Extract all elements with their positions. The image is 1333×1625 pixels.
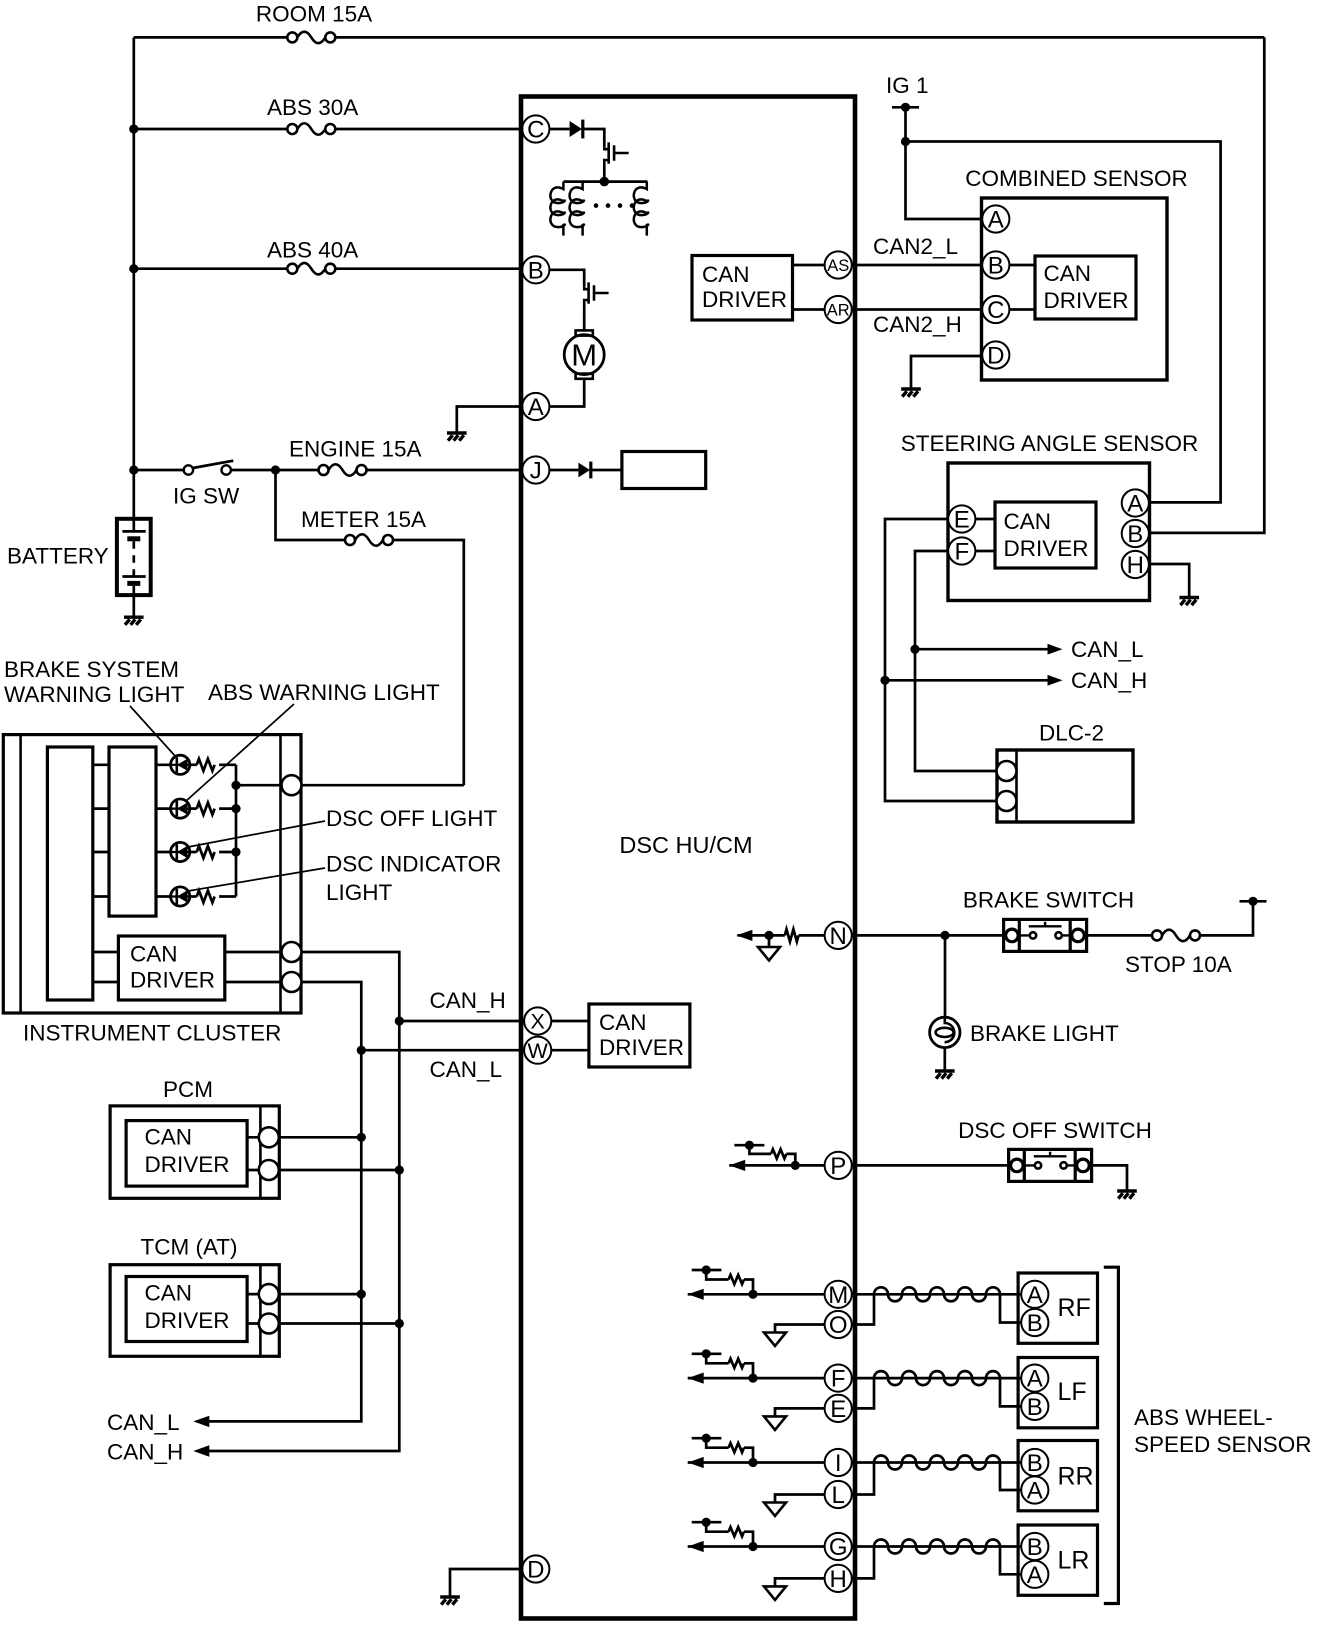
junction on bus at ABS40A [129,264,138,273]
box: CAN driver U3 (combined sensor) [1035,256,1136,319]
wire stubs U7 [247,1294,259,1323]
arrow CAN_L out [193,1416,209,1427]
wire: pull-up elbow to zigzag [749,1145,771,1154]
wire: diode to solenoid MOSFET drain [583,129,605,146]
svg-text:ENGINE 15A: ENGINE 15A [289,437,422,462]
svg-text:B: B [1027,1310,1043,1337]
svg-text:DRIVER: DRIVER [1004,536,1089,561]
svg-text:TCM (AT): TCM (AT) [140,1235,237,1260]
svg-text:IG 1: IG 1 [886,73,929,98]
svg-text:CAN_L: CAN_L [1071,637,1144,662]
arrow into ECU at M [688,1289,704,1300]
wire stubs U5 right [225,952,282,982]
lamp BRAKE LIGHT [930,1017,960,1047]
svg-text:SPEED SENSOR: SPEED SENSOR [1134,1432,1312,1457]
svg-text:A: A [1127,491,1143,518]
svg-text:H: H [830,1566,847,1593]
junction dots on collector [231,781,240,790]
pin circle DLC-2 upper [997,761,1017,781]
svg-text:CAN_H: CAN_H [107,1440,183,1465]
terminal C [522,115,549,142]
svg-text:CAN: CAN [145,1125,193,1150]
svg-text:L: L [832,1482,845,1509]
wire: F line [688,1377,825,1380]
box DLC-2 [997,750,1133,822]
power tick F pull-up [692,1349,722,1358]
resistor R2 [190,807,197,810]
switch DSC OFF SWITCH [1009,1149,1092,1181]
LED DSC indicator light [171,887,190,906]
power tick IG 1 [892,103,919,112]
wire: twisted pair down to RF pin B [1000,1294,1021,1322]
wire: L to internal triangle ground [775,1495,825,1503]
svg-text:ABS WHEEL-: ABS WHEEL- [1134,1405,1273,1430]
divider in DLC-2 [1015,750,1018,822]
junction dot G [748,1542,757,1551]
pin circle cluster CAN-L [282,972,302,992]
wire: Q2 source to motor [583,307,586,330]
svg-text:A: A [528,394,544,421]
terminal H [825,1565,852,1592]
resistor R-N zigzag [785,929,799,941]
terminal G [825,1533,852,1560]
wire: U1 to AS [793,264,825,267]
box: cluster internal block 2 [109,747,156,916]
ellipsis dots between coils [594,203,635,208]
open triangle ground at E [764,1416,786,1430]
wire: AS to combined sensor B (CAN2_L) [852,264,982,267]
pin circle PCM CAN-H [259,1160,279,1180]
pin A (LF) [1021,1365,1048,1392]
svg-text:CAN_L: CAN_L [430,1057,503,1082]
svg-text:AR: AR [827,302,850,320]
svg-text:LF: LF [1058,1378,1087,1406]
svg-text:A: A [1027,1478,1043,1505]
arrow into ECU at F [688,1373,704,1384]
terminal B [522,256,549,283]
inner left line [19,735,22,1013]
power tick G pull-up [692,1518,722,1527]
svg-text:RF: RF [1058,1294,1091,1322]
leader line ABS warning light [186,704,295,802]
resistor R-G zigzag [729,1527,744,1536]
svg-text:DRIVER: DRIVER [599,1035,684,1060]
pin B (RF) [1021,1309,1048,1336]
wire: F to LF sensor pin A [852,1377,1021,1380]
pin B (LR) [1021,1533,1048,1560]
svg-text:F: F [831,1366,846,1393]
wire: CAN_H rail to bottom arrow [208,1021,399,1451]
wire stubs row 2 [93,807,171,810]
wire: PCM CAN-H to rail [279,1169,400,1172]
junction dot PCM CAN-H [395,1165,404,1174]
svg-text:CAN: CAN [130,942,178,967]
terminal B (combined sensor) [982,251,1009,278]
pin A (RF) [1021,1281,1048,1308]
wire: twisted pair down to LF pin B [1000,1378,1021,1406]
svg-text:DSC HU/CM: DSC HU/CM [619,832,752,858]
svg-text:CAN_H: CAN_H [1071,668,1147,693]
box LR wheel sensor [1018,1525,1097,1595]
wire stubs row 3 [93,851,171,854]
wire: M pull-up elbow [706,1270,728,1280]
wire: brake light to ground [943,1048,946,1071]
svg-text:CAN2_L: CAN2_L [873,234,958,259]
wire: M line [688,1293,825,1296]
wire: C to diode [549,128,569,131]
LED brake system warning light [171,755,190,774]
box DSC HU/CM [521,97,855,1619]
terminal H (steering sensor) [1122,551,1149,578]
svg-text:M: M [828,1282,848,1309]
arrow into ECU at P [729,1160,745,1171]
wire: brake switch to STOP fuse [1087,901,1253,935]
svg-text:CAN: CAN [1044,261,1092,286]
wire: H to ground [1149,564,1189,598]
junction dot PCM CAN-L [357,1133,366,1142]
switch BRAKE SWITCH [1004,919,1087,951]
svg-text:DSC INDICATOR: DSC INDICATOR [326,852,501,877]
svg-text:CAN: CAN [599,1010,647,1035]
svg-text:DRIVER: DRIVER [145,1308,230,1333]
wire: F rail down to DLC-2 upper pin [915,551,996,771]
svg-text:P: P [830,1153,846,1180]
ground at D terminal [440,1597,460,1605]
connector strip line [279,735,282,1013]
wire: P line with arrow [729,1164,825,1167]
wire: twisted pair down to RR pin A [1000,1463,1021,1491]
svg-text:B: B [1027,1394,1043,1421]
box: CAN driver U6 (PCM) [126,1121,247,1187]
wire: I to RR sensor pin B [852,1461,1021,1464]
transistor Q1 (solenoid driver MOSFET) [604,142,628,167]
svg-text:D: D [527,1557,544,1584]
ground below brake light [935,1071,955,1079]
resistor R4 [190,895,197,898]
svg-text:CAN_H: CAN_H [430,988,506,1013]
svg-text:B: B [1027,1534,1043,1561]
resistor R-M zigzag [729,1275,744,1284]
wire: N line with pulldown and arrow [737,934,824,937]
svg-text:B: B [528,257,544,284]
svg-text:C: C [527,117,544,144]
junction dot brake light branch [940,931,949,940]
arrow into ECU at G [688,1541,704,1552]
box: internal regulator block [622,452,706,489]
wire: warning light collector [235,765,238,897]
svg-text:INSTRUMENT CLUSTER: INSTRUMENT CLUSTER [23,1021,281,1046]
twisted pair wave RR [874,1456,1000,1470]
wire: M to RF sensor pin A [852,1293,1021,1296]
svg-text:METER 15A: METER 15A [301,507,426,532]
wire stubs row 1 [93,763,171,766]
svg-text:J: J [530,458,542,485]
box: CAN driver U7 (TCM) [126,1277,247,1342]
wire: ROOM feed right column to steering angle sensor B [1149,37,1264,533]
svg-text:DRIVER: DRIVER [702,287,787,312]
LED DSC OFF light [171,842,190,861]
svg-text:DRIVER: DRIVER [1044,288,1129,313]
wire stubs row 4 [93,895,171,898]
terminal M [825,1281,852,1308]
svg-text:H: H [1127,552,1144,579]
wire: solenoid bus [563,180,647,183]
fuse METER 15A [345,534,393,546]
wire: G line [688,1545,825,1548]
twisted pair wave RF [874,1287,1000,1301]
svg-text:ABS 30A: ABS 30A [267,95,358,120]
open triangle ground at N [758,947,780,961]
diode D2 [578,462,590,479]
svg-text:B: B [1127,521,1143,548]
wire: I pull-up elbow [706,1438,728,1448]
svg-text:BATTERY: BATTERY [7,544,109,569]
wire: PCM CAN-L to rail [279,1136,362,1139]
svg-text:STOP 10A: STOP 10A [1125,952,1232,977]
junction dot M [748,1290,757,1299]
fuse ROOM 15A [287,32,335,44]
wire: diode D2 to internal box [591,469,622,472]
twisted pair wave LR [874,1540,1000,1554]
wire: G to LR sensor pin B [852,1545,1021,1548]
wire: E to U4 [975,518,995,521]
wire: brake light branch [944,935,947,1017]
power tick M pull-up [692,1265,722,1274]
svg-text:N: N [830,923,847,950]
wire: DSC OFF switch to ground [1092,1165,1127,1191]
svg-text:BRAKE LIGHT: BRAKE LIGHT [970,1021,1119,1046]
svg-text:G: G [829,1534,848,1561]
fuse ABS 30A [287,123,335,135]
pin A (RR) [1021,1476,1048,1503]
pin B (LF) [1021,1393,1048,1420]
wire: X to U2 [551,1020,589,1023]
wire: F pull-up elbow [706,1354,728,1364]
terminal J [522,456,549,483]
solenoid coil L3 [634,182,648,236]
svg-text:DRIVER: DRIVER [130,968,215,993]
terminal F (steering sensor) [948,537,975,564]
box RR wheel sensor [1018,1441,1097,1511]
box STEERING ANGLE SENSOR [948,463,1150,601]
junction dot METER branch [271,465,280,474]
power tick at STOP fuse [1240,897,1267,906]
box TCM (AT) [110,1265,279,1357]
wire: N to brake switch [852,934,1004,937]
switch IG SW [184,461,234,475]
junction dot N pulldown [764,931,773,940]
wire: cluster CAN-L to W [302,982,525,1050]
svg-text:X: X [531,1010,545,1034]
diode D1 (valve relay diode) [570,120,583,139]
svg-text:ROOM 15A: ROOM 15A [256,2,372,27]
wire: F to U4 [975,550,995,553]
pin circle TCM CAN-L [259,1284,279,1304]
wire: AR to combined sensor C (CAN2_H) [852,308,982,311]
svg-text:F: F [954,539,969,566]
wire: H riser to twisted pair [852,1547,874,1579]
terminal E (steering sensor) [948,505,975,532]
open triangle ground at O [764,1333,786,1347]
wire: ABS 30A line to terminal C [134,128,522,131]
svg-text:IG SW: IG SW [173,484,240,509]
motor M (ABS pump motor) [564,330,604,378]
svg-text:RR: RR [1058,1463,1094,1491]
solenoid coil L2 [570,182,584,236]
box: CAN driver U5 (cluster) [118,936,224,1000]
battery BATTERY [117,517,151,617]
svg-text:CAN2_H: CAN2_H [873,312,962,337]
wire: W to U2 [551,1049,589,1052]
terminal D [522,1555,549,1582]
svg-text:BRAKE SWITCH: BRAKE SWITCH [963,888,1134,913]
terminal AS [825,251,852,278]
junction dot TCM CAN-H [395,1319,404,1328]
wire: twisted pair down to LR pin A [1000,1547,1021,1575]
wire: D to ground [911,356,982,389]
svg-text:WARNING LIGHT: WARNING LIGHT [4,682,185,707]
wire: E to internal triangle ground [775,1408,825,1416]
svg-text:I: I [835,1450,842,1477]
svg-text:AS: AS [827,257,849,275]
wire: IG1 drop to combined sensor A [906,107,983,219]
wire: G pull-up elbow [706,1522,728,1532]
svg-text:STEERING ANGLE SENSOR: STEERING ANGLE SENSOR [901,431,1199,456]
svg-text:W: W [528,1039,549,1063]
svg-text:DSC OFF SWITCH: DSC OFF SWITCH [958,1118,1152,1143]
svg-text:COMBINED SENSOR: COMBINED SENSOR [965,166,1188,191]
terminal C (combined sensor) [982,296,1009,323]
terminal F [825,1365,852,1392]
svg-text:ABS 40A: ABS 40A [267,238,358,263]
wire: CAN_H stub arrow [885,679,1049,682]
svg-text:LR: LR [1058,1547,1090,1575]
box COMBINED SENSOR [982,198,1168,380]
svg-text:E: E [954,507,970,534]
wire: O riser to twisted pair [852,1294,874,1324]
wire: cluster feed to METER fuse rail [302,784,464,787]
terminal I [825,1449,852,1476]
pin circle TCM CAN-H [259,1314,279,1334]
power tick P pull-up [734,1141,764,1150]
solenoid coil L1 [550,182,564,236]
junction dot P pull-up [791,1161,800,1170]
junction dot CAN_L at W line [357,1046,366,1055]
wire stubs U5 left [93,952,119,982]
wire: IG1 branch to steering angle sensor A [906,142,1221,503]
leader line DSC OFF light [188,821,325,847]
svg-text:CAN: CAN [702,262,750,287]
junction dot CAN_H stub [880,676,889,685]
fuse ABS 40A [287,263,335,275]
wire: P to DSC OFF switch [852,1164,1009,1167]
box RF wheel sensor [1018,1273,1097,1343]
terminal A (combined sensor) [982,205,1009,232]
resistor R1 [190,763,197,766]
svg-text:DRIVER: DRIVER [145,1152,230,1177]
svg-text:A: A [988,207,1004,234]
wire: collector to cluster pin [236,784,282,787]
wire: ROOM 15A feed line top [134,36,1265,39]
junction on bus at ignition line [129,465,138,474]
terminal L [825,1481,852,1508]
svg-text:ABS WARNING LIGHT: ABS WARNING LIGHT [208,680,440,705]
resistor R-P zigzag [771,1149,786,1158]
svg-text:M: M [571,338,597,373]
svg-text:PCM: PCM [163,1077,213,1102]
wire: E riser to twisted pair [852,1378,874,1408]
ground below battery [124,617,144,625]
terminal P [825,1152,852,1179]
box: cluster internal block 1 [47,747,92,1000]
pin circle cluster CAN-H [282,942,302,962]
wire: zigzag elbow to M line [744,1280,753,1295]
wire: zigzag elbow to I line [744,1448,753,1463]
terminal O [825,1311,852,1338]
svg-text:DLC-2: DLC-2 [1039,721,1104,746]
wire stubs U6 [247,1137,259,1170]
wire: D terminal to ground [450,1569,522,1597]
svg-text:A: A [1027,1366,1043,1393]
svg-text:E: E [830,1396,846,1423]
transistor Q2 (pump motor MOSFET) [584,282,608,307]
junction dot at solenoid bus [600,177,610,187]
pin circle cluster feed [282,775,302,795]
wire: ignition line to IG SW [134,469,184,472]
box: CAN driver U2 (X/W) [589,1004,690,1067]
open triangle ground at H [764,1586,786,1600]
junction dot IG1 branch [901,137,910,146]
terminal W [524,1037,551,1064]
svg-text:CAN: CAN [145,1281,193,1306]
terminal AR [825,296,852,323]
resistor R-F zigzag [729,1359,744,1368]
LED ABS warning light [171,799,190,818]
wire: A terminal ground lead [457,407,522,434]
svg-text:D: D [987,343,1004,370]
resistor R3 [190,851,197,854]
box: CAN driver U1 (AS/AR) [692,256,793,321]
pin A (LR) [1021,1561,1048,1588]
wire: L riser to twisted pair [852,1463,874,1495]
terminal D (combined sensor) [982,341,1009,368]
junction dot CAN_H at X line [395,1016,404,1025]
fuse STOP 10A [1152,930,1200,942]
strip line PCM [259,1106,262,1198]
wire: B to U3 [1009,264,1035,267]
wire: zigzag to junction [786,1154,795,1166]
twisted pair wave LF [874,1371,1000,1385]
wire: U1 to AR [793,308,825,311]
wire: left battery bus vertical [132,37,135,517]
svg-text:C: C [987,297,1004,324]
wire: E rail down to DLC-2 lower pin [885,519,996,801]
terminal N [825,922,852,949]
wire: cluster CAN-H to X [302,952,525,1021]
junction dot F [748,1374,757,1383]
svg-text:CAN: CAN [1004,509,1052,534]
leader line DSC indicator light [188,868,325,891]
wire: I line [688,1461,825,1464]
box: CAN driver U4 (steering sensor) [995,502,1096,568]
wire: H to internal triangle ground [775,1578,825,1586]
box PCM [110,1106,279,1198]
open triangle ground at L [764,1503,786,1517]
strip line TCM [259,1265,262,1357]
pin circle PCM CAN-L [259,1127,279,1147]
junction on bus at ABS30A [129,124,138,133]
box LF wheel sensor [1018,1358,1097,1428]
